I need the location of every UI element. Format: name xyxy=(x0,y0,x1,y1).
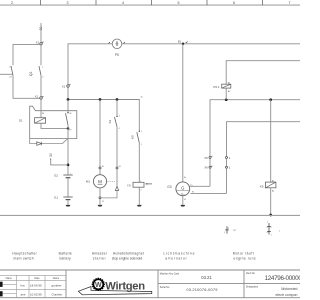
svg-text:30: 30 xyxy=(102,166,104,168)
svg-text:1: 1 xyxy=(271,234,272,236)
terminal 30 of M1 xyxy=(99,167,101,169)
svg-text:5: 5 xyxy=(178,1,180,5)
wire G1 to ground xyxy=(67,200,69,205)
svg-text:K0: K0 xyxy=(131,135,135,139)
svg-text:alternator: alternator xyxy=(165,257,187,261)
svg-text:86: 86 xyxy=(42,113,44,115)
svg-text:1: 1 xyxy=(140,181,141,183)
svg-text:X5: X5 xyxy=(204,156,208,160)
svg-text:K5: K5 xyxy=(260,184,264,188)
wire M1 bottom xyxy=(99,188,101,197)
relay coil K5.1 with feed loop xyxy=(226,61,300,84)
svg-text:Name: Name xyxy=(53,277,60,280)
wire D1 to battery xyxy=(67,128,69,174)
svg-text:D1: D1 xyxy=(19,118,23,122)
svg-text:Lichtmaschine: Lichtmaschine xyxy=(163,251,195,255)
svg-text:2: 2 xyxy=(11,1,13,5)
starter M1 xyxy=(86,175,116,188)
lamp P5 xyxy=(109,39,125,57)
svg-text:03.210076-0079: 03.210076-0079 xyxy=(186,287,217,292)
border top line xyxy=(0,4,300,6)
alternator G3 xyxy=(167,182,194,201)
main switch Q1 xyxy=(9,66,44,79)
node battery junction xyxy=(67,164,70,167)
wire K5 to chassis rail xyxy=(270,188,272,215)
svg-text:31: 31 xyxy=(102,201,104,203)
svg-text:N7: N7 xyxy=(233,230,235,232)
svg-text:X6: X6 xyxy=(204,166,208,170)
svg-text:A1: A1 xyxy=(228,82,230,85)
wire M1 to solenoid return xyxy=(101,190,117,198)
svg-text:4: 4 xyxy=(122,1,124,5)
wire G3 to ground xyxy=(182,196,184,205)
wire starter feed xyxy=(99,100,101,168)
svg-text:124796-00000: 124796-00000 xyxy=(265,275,301,282)
wire 30 (top feed to X1) xyxy=(40,23,42,43)
svg-text:starter: starter xyxy=(93,257,107,261)
terminal 50 of M1 xyxy=(116,167,118,169)
svg-text:stop engine solenoid: stop engine solenoid xyxy=(112,257,142,261)
svg-text:X1: X1 xyxy=(62,84,66,88)
wire K2 to starter solenoid xyxy=(116,127,118,167)
wire coil bottom to contact junction xyxy=(41,123,68,128)
wire X1b to coil xyxy=(40,99,42,118)
node: bus junction at X1 drop xyxy=(67,98,70,101)
title block frame xyxy=(0,270,300,298)
wire feed from sheet edge to Q1 xyxy=(0,73,12,75)
wire D+ to X5 drop xyxy=(189,185,210,187)
svg-text:Hubabstellmagnet: Hubabstellmagnet xyxy=(113,251,144,255)
connector X1:a xyxy=(36,40,44,45)
svg-text:A1: A1 xyxy=(272,180,274,183)
wire Q1 left pole down to bottom rail xyxy=(13,75,40,98)
wire M1 to ground xyxy=(99,199,101,205)
solenoid Y0 xyxy=(127,181,152,192)
svg-text:Name: Name xyxy=(6,277,13,280)
svg-text:gunther: gunther xyxy=(52,284,62,288)
diode D1 (suppressor below box) xyxy=(30,139,68,146)
svg-text:10.05.99: 10.05.99 xyxy=(30,293,42,297)
connector X1:c xyxy=(62,84,71,88)
relay box D1 xyxy=(30,106,77,138)
svg-text:2: 2 xyxy=(140,190,141,192)
svg-text:X1: X1 xyxy=(35,95,39,99)
svg-text:Q1: Q1 xyxy=(29,71,33,76)
svg-text:50: 50 xyxy=(119,166,121,168)
node junction inside D1 xyxy=(67,127,70,130)
wire Q1 right pole xyxy=(40,45,42,65)
svg-text:X1: X1 xyxy=(36,40,40,44)
node: K2 feed junction xyxy=(116,98,119,101)
svg-text:30: 30 xyxy=(69,113,71,115)
svg-text:1: 1 xyxy=(224,232,225,234)
svg-text:Batterie: Batterie xyxy=(59,251,73,255)
svg-text:1: 1 xyxy=(141,130,142,132)
svg-text:Hauptschalter: Hauptschalter xyxy=(12,251,37,255)
svg-text:30: 30 xyxy=(49,153,53,157)
node: starter feed junction xyxy=(99,98,102,101)
revision markers xyxy=(0,282,3,287)
svg-text:4: 4 xyxy=(267,232,268,234)
svg-text:Designation: Designation xyxy=(246,286,259,289)
wire K0 to Y0 xyxy=(138,143,140,182)
svg-text:G2: G2 xyxy=(54,174,58,178)
svg-text:7: 7 xyxy=(289,1,291,5)
svg-text:W: W xyxy=(95,282,102,289)
svg-text:B1: B1 xyxy=(178,39,182,43)
contact K2 (start relay) xyxy=(108,100,119,131)
node K5 coil junction xyxy=(269,98,272,101)
wire X1a to Q1 left pole xyxy=(13,44,40,65)
node on chassis rail xyxy=(269,214,272,217)
revision table xyxy=(0,275,66,297)
ground (battery) xyxy=(66,205,71,207)
border column numbers xyxy=(11,1,291,5)
revision row 2 xyxy=(21,293,63,297)
svg-text:G: G xyxy=(181,185,184,190)
svg-text:18.04.95: 18.04.95 xyxy=(30,284,42,288)
svg-text:6: 6 xyxy=(233,1,235,5)
revision row 1 xyxy=(21,284,62,288)
svg-text:engine runs: engine runs xyxy=(234,257,257,261)
svg-text:G3: G3 xyxy=(167,185,171,189)
svg-text:1: 1 xyxy=(279,230,280,232)
contact map K5 xyxy=(267,223,271,235)
connector X6 pin 1 xyxy=(226,166,231,170)
svg-text:electr compon: electr compon xyxy=(276,293,298,297)
svg-text:3: 3 xyxy=(267,227,268,229)
node B1 on top bus xyxy=(178,39,188,45)
wire G2 to G1 xyxy=(67,178,69,197)
top bus wire (terminal 30) xyxy=(68,44,112,99)
svg-text:87: 87 xyxy=(69,130,71,132)
svg-text:Motorwied: Motorwied xyxy=(281,287,297,291)
svg-text:main switch: main switch xyxy=(14,257,34,261)
svg-text:Gunther: Gunther xyxy=(52,293,63,297)
wire loop to X5/X6 plug side xyxy=(227,122,301,157)
contact map K5.1 xyxy=(225,226,229,233)
wire X6 to D+ pin xyxy=(209,168,211,186)
relay coil K5 xyxy=(270,100,272,182)
svg-text:B+: B+ xyxy=(184,177,186,179)
svg-text:Motor läuft: Motor läuft xyxy=(233,251,255,255)
wire X6 pin1 to W pin xyxy=(226,168,228,193)
contact D1 xyxy=(42,100,71,132)
border column ticks xyxy=(41,0,263,5)
terminal 31 of M1 xyxy=(99,197,101,199)
svg-text:Y0: Y0 xyxy=(127,184,131,188)
wire alternator B+ xyxy=(182,44,184,182)
relay coil D1 xyxy=(35,118,46,124)
ground (G3) xyxy=(180,205,185,207)
svg-text:M: M xyxy=(98,179,102,184)
svg-text:5: 5 xyxy=(267,222,268,224)
svg-text:P5: P5 xyxy=(115,53,119,57)
solenoid symbol on M1 xyxy=(115,187,118,191)
svg-text:03.21: 03.21 xyxy=(201,275,212,280)
svg-text:Serial No.: Serial No. xyxy=(160,286,170,289)
svg-text:2: 2 xyxy=(228,227,229,229)
svg-text:Date: Date xyxy=(34,277,40,280)
legend function labels xyxy=(12,251,254,255)
svg-text:A2: A2 xyxy=(272,189,274,192)
svg-text:2: 2 xyxy=(141,144,142,146)
svg-text:battery: battery xyxy=(60,257,72,261)
border schematic bottom xyxy=(0,214,300,216)
svg-text:30: 30 xyxy=(39,27,43,31)
battery G1 xyxy=(54,196,73,200)
svg-text:3: 3 xyxy=(67,1,69,5)
right distribution bus (D+) xyxy=(210,100,300,157)
svg-text:Anlasser: Anlasser xyxy=(92,251,108,255)
ground (Y0) xyxy=(137,205,142,207)
Wirtgen logo xyxy=(78,278,152,295)
svg-text:4: 4 xyxy=(119,128,120,130)
wire stub terminal 30 xyxy=(49,153,68,165)
ground (starter) xyxy=(98,205,103,207)
contact K0 (stop relay) xyxy=(131,96,143,146)
svg-text:Wirtgen: Wirtgen xyxy=(105,280,145,292)
connector X6 xyxy=(204,166,212,170)
svg-text:2: 2 xyxy=(271,227,272,229)
svg-text:M1: M1 xyxy=(86,180,90,184)
svg-text:K5.1: K5.1 xyxy=(213,85,220,89)
svg-text:Machine Key Code: Machine Key Code xyxy=(160,274,180,276)
svg-text:ane: ane xyxy=(21,293,26,297)
battery G2 xyxy=(54,173,73,178)
node K5.1 coil junction xyxy=(225,98,228,101)
svg-text:50: 50 xyxy=(141,96,143,98)
svg-text:Irw.: Irw. xyxy=(21,284,26,288)
connector X5 pin 1 xyxy=(226,156,231,160)
connector X1:b xyxy=(35,95,44,100)
wire Y0 to ground xyxy=(138,187,140,205)
wire W to right drop xyxy=(190,192,226,194)
svg-text:G1: G1 xyxy=(54,196,58,200)
svg-text:K2: K2 xyxy=(108,119,112,123)
left distribution bus xyxy=(68,100,139,131)
svg-text:A2: A2 xyxy=(228,90,230,93)
svg-text:Ident No.: Ident No. xyxy=(246,272,256,275)
svg-text:3: 3 xyxy=(119,116,120,118)
connector X5 xyxy=(204,156,212,160)
